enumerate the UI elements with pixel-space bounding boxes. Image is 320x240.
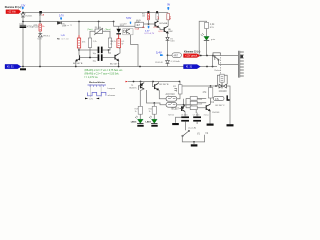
svg-text:Abfall: Abfall <box>120 24 125 27</box>
svg-text:R5 an T1: R5 an T1 <box>64 25 73 27</box>
wire left gnd stub <box>176 117 182 123</box>
wire +12Vs line <box>200 55 238 57</box>
wire boxes right stubs <box>197 98 206 107</box>
optocoupler pill K2 <box>166 102 177 107</box>
ground bar LED2 <box>137 125 143 127</box>
resistor R19 led chain 1 <box>138 106 142 114</box>
wire trimmer left leg <box>90 31 95 38</box>
relay coil R16 <box>220 74 224 82</box>
svg-text:LED1: LED1 <box>146 122 152 124</box>
wire vertical x=40 <box>39 13 41 25</box>
resistor R12 small <box>156 13 159 19</box>
svg-text:0,7V: 0,7V <box>159 31 164 33</box>
wire rail2 y=21.5 <box>23 21 114 23</box>
wire cap C6 bottom to switch <box>184 122 186 131</box>
node junction (23,12.5) <box>22 12 24 14</box>
svg-text:BC 547 B: BC 547 B <box>160 84 170 86</box>
svg-text:243C: 243C <box>168 31 173 33</box>
wire x=230 down <box>229 95 231 124</box>
resistor R20 led chain 2 <box>152 106 156 114</box>
node blue arrow marker <box>130 22 131 25</box>
svg-text:5,6V: 5,6V <box>126 17 131 20</box>
svg-text:0,7s: 0,7s <box>89 99 93 101</box>
svg-text:LED5: LED5 <box>131 122 137 124</box>
wire D6 to gnd rail <box>167 64 169 67</box>
svg-text:1N4148: 1N4148 <box>219 91 228 93</box>
node pad (148.4,12.2) <box>147 11 149 13</box>
wire R16 bottom <box>221 82 223 84</box>
wire R13 bottom to T4 collector <box>167 20 169 26</box>
part symbol circle <box>123 30 125 32</box>
wire R7 bottom to cap2 <box>90 48 98 58</box>
svg-text:Lampen: Lampen <box>108 88 116 90</box>
svg-text:+12 Volt: +12 Volt <box>7 11 16 14</box>
wire stub rail3 to R21 <box>179 82 181 85</box>
svg-text:Klemme 30 (+): Klemme 30 (+) <box>5 6 21 9</box>
box around reference parts <box>123 29 133 35</box>
svg-text:0,7V: 0,7V <box>153 27 158 29</box>
wire box to T3 <box>144 23 156 25</box>
wire T5 base left <box>138 86 140 90</box>
connector X1 <box>238 51 243 78</box>
connector pin mark <box>240 55 243 58</box>
resistor R21 LDR <box>178 85 182 94</box>
coil side loop right <box>224 75 227 84</box>
diode D3 on rail2 horizontal <box>57 22 61 25</box>
waveform trace 2 <box>88 92 106 95</box>
node junction (140,66.5) <box>139 66 141 68</box>
svg-text:0,7V+0,7V: 0,7V+0,7V <box>144 33 154 35</box>
svg-text:f = 1,4 Hz ca.: f = 1,4 Hz ca. <box>85 77 99 79</box>
wire branch line y=103 <box>147 90 167 105</box>
svg-text:BC546B: BC546B <box>160 23 168 25</box>
svg-text:1k: 1k <box>135 111 137 113</box>
wire contact to connector <box>219 64 239 66</box>
wire R17 bottom <box>210 98 212 105</box>
LED3 green <box>149 116 158 124</box>
svg-text:1N 4148: 1N 4148 <box>155 62 163 64</box>
wire cap1 line left <box>79 49 98 51</box>
wire rail4 y=86 <box>182 86 230 95</box>
node junction (23,21.5) <box>22 21 24 23</box>
wire R17 top <box>210 86 212 88</box>
wire T6 collector up <box>157 82 159 84</box>
svg-text:5,4V: 5,4V <box>156 51 162 55</box>
diode D1 vertical <box>21 14 25 17</box>
resistor R15 <box>205 22 209 28</box>
svg-text:R21: R21 <box>173 86 176 88</box>
wire T8 emitter down <box>184 112 186 113</box>
switch S1 <box>182 130 190 136</box>
node junction (79,50) <box>78 49 80 51</box>
fuse F1 on rail1 <box>39 11 42 14</box>
svg-text:9,1V: 9,1V <box>37 39 42 41</box>
svg-text:Kl. 31: Kl. 31 <box>7 65 14 69</box>
svg-text:0,7s ein: 0,7s ein <box>62 39 70 41</box>
net label +12V red arrow <box>6 10 21 14</box>
resistor R1 red <box>39 24 42 31</box>
svg-text:5401: 5401 <box>170 40 174 42</box>
transistor T5 BC557 <box>141 83 145 89</box>
wire R5 bottom to node <box>78 48 80 50</box>
wire trimmer wiper <box>98 22 100 30</box>
wire cap C7 top stub <box>196 113 198 117</box>
svg-text:1N4001: 1N4001 <box>25 16 33 18</box>
relay contact K1 <box>213 53 220 65</box>
transistor T8 near d9 <box>182 106 185 112</box>
wire loop up x=199 <box>199 21 206 55</box>
transistor T4 BD243 <box>164 26 168 33</box>
svg-text:4700µF/25V: 4700µF/25V <box>27 26 40 28</box>
resistor R9 red <box>117 39 121 48</box>
waveform cursor lines <box>91 84 102 97</box>
waveform trace 1 <box>88 85 106 87</box>
diode D4 black triangle <box>118 26 120 29</box>
svg-text:ZPD9,1: ZPD9,1 <box>43 35 51 37</box>
node junction (213,56.3) <box>212 55 214 57</box>
node junction (210.5,86) <box>210 85 212 87</box>
svg-text:Kl. 31: Kl. 31 <box>186 66 193 69</box>
wire R11 bottom <box>147 20 149 24</box>
node blue arrow marker <box>148 26 150 29</box>
node junction (183.6,104.8) <box>183 104 185 106</box>
wire T5 top stub <box>140 82 142 84</box>
wire R21 bottom to pill1 <box>177 94 180 99</box>
node junction (98.6,21.5) <box>98 21 100 23</box>
node junction (118.6,66.5) <box>118 66 120 68</box>
wire cap2 right to T2 base <box>103 57 115 59</box>
svg-text:BC557: BC557 <box>172 108 180 111</box>
svg-text:(1=4+B): (1=4+B) <box>188 127 196 129</box>
wire x=196.2 down from box3 <box>195 110 197 113</box>
diode D6 vertical lower <box>166 61 170 64</box>
transistor T6 BC547 <box>155 83 159 90</box>
wire cap C7 bottom stub <box>196 122 198 124</box>
diode D5 vertical <box>166 37 170 40</box>
svg-text:R23 1k: R23 1k <box>168 114 174 116</box>
LED2 green <box>135 116 144 124</box>
wire LED1 down <box>206 41 208 56</box>
wire left vertical x=23 <box>22 13 24 26</box>
svg-text:1k: 1k <box>110 44 112 46</box>
wire T6 emitter down <box>158 90 166 99</box>
resistor R5 red <box>77 38 80 48</box>
wire R9 bottom to T2 collector <box>119 48 120 54</box>
trimmer R6 <box>94 28 103 35</box>
wire boxes left stubs <box>184 98 191 107</box>
wire T1 base right <box>80 57 91 59</box>
wire R12 bottom to T3 collector <box>157 20 158 22</box>
wire T4 emitter down <box>167 33 170 37</box>
svg-text:(R6+R8) x C3 = T aus = 0,55 Se: (R6+R8) x C3 = T aus = 0,55 Sek. <box>85 73 120 75</box>
svg-text:(R5+R6) x C2 = T ein = 0,75 Se: (R5+R6) x C2 = T ein = 0,75 Sek. ein <box>85 70 123 72</box>
wire stub to R20 <box>153 103 155 106</box>
coil marks <box>221 76 223 80</box>
wire node to pill resistor <box>168 54 173 56</box>
wire pill2 right <box>177 104 190 106</box>
mechanical dashed link <box>220 55 222 74</box>
svg-text:C6 100n: C6 100n <box>181 114 188 116</box>
LED1 green <box>201 33 209 40</box>
small box B2 <box>190 101 197 105</box>
node junction (154.3,103) <box>153 102 155 104</box>
svg-text:BC 547 B: BC 547 B <box>110 63 120 65</box>
node junction (90,57.5) <box>89 57 91 59</box>
svg-text:0,1-10mA: 0,1-10mA <box>171 60 180 63</box>
node junction (212.5,66.5) <box>212 66 214 68</box>
svg-text:2,2k: 2,2k <box>93 41 97 43</box>
node junction (167.3,55.3) <box>167 54 169 56</box>
node junction (140.5,81.5) <box>140 81 142 83</box>
arrow marker right <box>96 98 99 100</box>
wire R20 to LED3 <box>153 114 155 119</box>
node junction (153,81.5) <box>152 81 154 83</box>
svg-text:0,6A: 0,6A <box>135 28 140 31</box>
svg-text:BC557C: BC557C <box>130 87 138 89</box>
capacitor C2 <box>98 47 103 54</box>
wire gnd rail y=66.5 <box>21 66 217 68</box>
diode D2 zener <box>38 34 42 37</box>
capacitor C6 plates <box>181 116 189 121</box>
LDR arrows <box>174 88 177 91</box>
ground bar bottom <box>191 144 198 146</box>
wire trimmer right leg <box>103 31 111 38</box>
node junction (75.8,66.5) <box>75 66 77 68</box>
node blue arrow marker <box>167 7 169 10</box>
svg-text:W: W <box>122 44 124 46</box>
ground bar x=210 <box>207 124 214 126</box>
svg-text:4,7k: 4,7k <box>34 25 38 27</box>
wire red segment D4 to R9 <box>118 34 120 38</box>
transistor squiggle <box>127 29 130 34</box>
wire rail3 y=81.5 <box>128 81 180 83</box>
wire T8 base left <box>179 108 181 110</box>
svg-text:+12V gesch.: +12V gesch. <box>185 56 198 58</box>
net label GND blue arrow right <box>184 65 201 69</box>
node blue arrow marker <box>22 7 24 10</box>
ground bar x=230 <box>227 124 234 126</box>
wire pill1/junction link <box>183 99 185 105</box>
svg-text:4k7: 4k7 <box>136 24 141 27</box>
node blue arrow marker right <box>160 54 163 56</box>
svg-text:10k: 10k <box>142 15 145 17</box>
svg-text:BC 547 C: BC 547 C <box>216 105 226 107</box>
wire squiggle emitter down to gnd rail <box>131 35 138 67</box>
wire D5 to node <box>167 40 169 60</box>
svg-text:100n: 100n <box>19 24 23 26</box>
svg-text:9V: 9V <box>167 3 170 6</box>
wire T6 base left <box>153 82 155 87</box>
ground bar below x=23 <box>20 68 26 70</box>
svg-text:minus: minus <box>204 114 209 116</box>
svg-text:0R5: 0R5 <box>170 16 172 19</box>
wire T2 emitter down <box>118 61 120 67</box>
transistor T7 <box>206 104 210 111</box>
svg-text:C7 100n: C7 100n <box>193 114 200 116</box>
node junction (207,66.5) <box>206 66 208 68</box>
arrow marker left <box>85 98 88 100</box>
small box B1 <box>190 97 197 101</box>
node junction (133.5,81.5) <box>133 81 135 83</box>
svg-text:R6 10k: R6 10k <box>95 27 101 29</box>
wire switch bottom <box>182 135 204 142</box>
resistor R11 red small <box>148 14 150 20</box>
wire vertical 212.5 <box>211 56 213 67</box>
resistor R13 small <box>167 14 170 20</box>
svg-text:AQY210: AQY210 <box>166 93 176 96</box>
resistor R17 tall <box>208 88 212 98</box>
node junction (206.5,56.3) <box>206 55 208 57</box>
wire R19 to LED2 <box>139 114 141 119</box>
wire T3 emitter to T4 base <box>159 27 165 29</box>
optocoupler pill K1 <box>166 96 177 101</box>
wire R8 bottom <box>108 48 110 51</box>
svg-text:4R7: 4R7 <box>174 55 179 58</box>
wire cap1 right <box>103 50 111 53</box>
svg-text:4k7: 4k7 <box>158 16 160 19</box>
capacitor C1 elko <box>20 25 27 28</box>
node junction (79,21.5) <box>78 21 80 23</box>
node junction (199.2,56.5) <box>200 55 202 57</box>
svg-text:1N4148: 1N4148 <box>212 112 220 114</box>
wire x=79 down <box>78 22 80 36</box>
resistor R8 <box>108 38 111 48</box>
resistor R7 <box>88 38 91 48</box>
svg-text:Relais: Relais <box>215 70 221 72</box>
svg-text:schwarz: schwarz <box>108 94 116 97</box>
pill R18 <box>213 96 224 100</box>
node junction (194,141.9) <box>193 141 195 143</box>
wire R15 to LED <box>206 29 208 37</box>
node junction (23,66.5) <box>22 66 24 68</box>
resistor R14 pill <box>172 53 181 58</box>
wire x=113.6 down to regulator line <box>114 22 135 27</box>
wire rail1 +12V y=12.5 <box>23 12 168 14</box>
svg-text:1,2k: 1,2k <box>210 23 215 26</box>
node junction (216,86) <box>215 85 217 87</box>
net label GND blue arrow left <box>5 64 21 68</box>
node junction (40,66.5) <box>39 66 41 68</box>
wire cap C6 top stub <box>184 113 186 117</box>
capacitor C7 plates <box>193 116 201 121</box>
coil side loop left <box>217 75 219 86</box>
svg-text:1k: 1k <box>149 111 151 113</box>
wire T7 base trace <box>205 107 206 109</box>
node pad (157.1,12.2) <box>156 11 158 13</box>
transistor T3 BC547 <box>155 21 159 27</box>
wire T1 emitter down <box>75 61 77 67</box>
ground bar LED3 <box>151 125 157 127</box>
small box B3 <box>190 106 197 110</box>
svg-text:BC 547 B: BC 547 B <box>73 63 83 65</box>
resistor R10 box <box>135 22 144 27</box>
ground bar x=175.5 <box>172 123 179 125</box>
transistor T2 BC547 <box>115 54 119 61</box>
node junction (113.6,21.5) <box>113 21 115 23</box>
wire T5 down <box>140 89 144 106</box>
diode pair D7 D8 <box>219 84 226 89</box>
svg-text:Wechselblinker: Wechselblinker <box>89 82 105 84</box>
transistor T1 BC547 <box>76 50 80 61</box>
node junction (108,50) <box>108 49 110 51</box>
node junction (148.5,24) <box>148 23 150 25</box>
svg-text:max: max <box>136 22 140 24</box>
part thick L mark <box>227 95 230 100</box>
capacitor C3 <box>98 54 103 61</box>
wire junction to gnd <box>193 142 195 144</box>
svg-text:Klemme 15 (+): Klemme 15 (+) <box>184 51 200 54</box>
net label +12V switched red arrow <box>184 54 201 58</box>
svg-text:10k: 10k <box>149 16 151 19</box>
node junction (40,21.5) <box>39 21 41 23</box>
node junction (179.5,81.5) <box>179 81 181 83</box>
net label red stub <box>126 81 128 83</box>
wire T7 emitter down to gnd <box>209 111 211 124</box>
node blue arrow marker <box>60 17 62 20</box>
svg-text:1,4V: 1,4V <box>61 35 66 37</box>
